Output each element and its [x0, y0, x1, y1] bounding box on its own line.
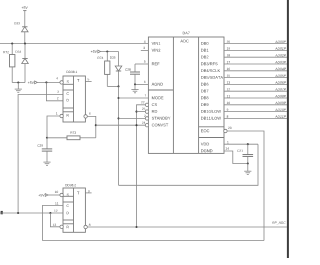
wire EOC route lower	[119, 144, 259, 185]
wire DB9 to bus	[224, 102, 287, 105]
pin 3 label	[57, 91, 59, 93]
pin 13 label	[53, 224, 56, 226]
pin 5 label	[88, 78, 90, 80]
node C21-bottom	[247, 162, 249, 164]
wire DB6 to bus	[224, 81, 287, 84]
wire VDD	[224, 143, 258, 145]
pin 6 label	[89, 112, 90, 114]
ground (AGND/C28)	[131, 84, 138, 92]
wire D to R jog	[50, 213, 60, 227]
wire control vertical	[118, 86, 120, 185]
pin 7 label (MODE)	[145, 94, 146, 96]
wire DB0 to bus	[224, 41, 287, 44]
wire RP_ADC	[87, 226, 287, 228]
node R72-top	[11, 43, 13, 45]
node R73-left junction	[46, 137, 48, 139]
pin 9 stub	[85, 192, 91, 194]
wire DB3 to bus	[224, 61, 287, 64]
terminal (left edge)	[1, 211, 3, 214]
pin 11 label	[55, 202, 58, 204]
resistor R74	[98, 52, 110, 87]
bus ADC data (right edge)	[287, 0, 289, 258]
flip-flop DD38.1 body	[63, 71, 85, 122]
pin 25 label (RD)	[142, 108, 145, 110]
wire left terminal to D	[0, 212, 63, 214]
wire DB10 to bus	[224, 109, 287, 112]
pin 22 circle (CS)	[145, 103, 148, 106]
wire DB1 to bus	[224, 47, 287, 50]
node MODE junction	[117, 97, 119, 99]
wire CS jog	[137, 105, 147, 227]
pin 22 label (CS)	[141, 101, 144, 103]
ground (C29)	[43, 161, 50, 165]
node CONVST junction	[135, 124, 137, 126]
pin 6 label (AGND)	[144, 81, 146, 83]
pin 1 label (VDD)	[227, 141, 228, 143]
pin 13 circle (R)	[60, 225, 63, 228]
power +5V (R74/D35)	[91, 50, 119, 53]
diode D35	[110, 52, 122, 87]
node R-branch	[49, 212, 51, 214]
wire R72/D34 bottom	[12, 82, 25, 84]
wire REF	[135, 63, 148, 65]
wire DB4 to bus	[224, 68, 287, 71]
capacitor C29	[37, 138, 52, 161]
wire RD	[137, 111, 147, 113]
ground (C21)	[244, 164, 251, 175]
pin 12 label	[54, 210, 57, 212]
diode D33	[14, 22, 28, 43]
node D35-bottom	[117, 85, 119, 87]
pin 4 label (VIN1)	[144, 41, 146, 43]
resistor R72	[3, 44, 15, 83]
capacitor C21	[237, 144, 253, 163]
pin 4 circle (S)	[60, 81, 63, 84]
wire pin 6 to R73-right	[87, 116, 96, 137]
pin 23 label (EOC)	[228, 127, 231, 129]
power +5V (top)	[22, 6, 28, 27]
wire C input (pin 3)	[18, 95, 63, 214]
wire DB7 to bus	[224, 88, 287, 91]
wire AGND	[135, 83, 148, 85]
node R74-top	[106, 50, 108, 52]
wire DB8 to bus	[224, 95, 287, 98]
wire DB5 to bus	[224, 75, 287, 78]
power +5V (DD38.1 S)	[28, 81, 60, 84]
pin 9 label	[88, 190, 89, 192]
pin 2 label (STANDBY)	[144, 115, 145, 117]
wire DB11 to bus	[224, 115, 287, 118]
node RD junction	[135, 111, 137, 113]
node C-branch (pin3 net)	[17, 212, 19, 214]
pin 8 circle	[84, 225, 87, 228]
wire pin 11 (C)	[42, 206, 63, 241]
node RP_ADC junction	[135, 226, 137, 228]
node D34-top	[24, 43, 26, 45]
wire pin 1 (R)	[47, 116, 60, 138]
pin 24 label (CONVST)	[142, 122, 145, 124]
pin 5 stub	[85, 80, 91, 82]
pin 1 circle (R)	[60, 114, 63, 117]
node C21-top	[247, 143, 249, 145]
pin 25 circle (RD)	[145, 110, 148, 113]
net label RP_ADC	[272, 222, 285, 225]
wire MODE	[119, 97, 149, 99]
node AGND junction	[134, 83, 136, 85]
power +5V (DD38.2 S)	[38, 194, 60, 197]
wire EOC route	[227, 131, 264, 241]
wire R74/D35 junction	[107, 85, 118, 87]
pin 3 label (VIN2)	[143, 47, 145, 49]
pin 4 label	[56, 77, 58, 79]
pin 5 label (REF)	[144, 60, 146, 62]
diode D34	[16, 44, 29, 83]
resistor R73	[47, 132, 96, 140]
ground (R72/D34)	[15, 83, 22, 93]
node S-wire junction	[45, 81, 47, 83]
pin 6 circle	[84, 115, 87, 118]
pin 14 label (DGND)	[226, 147, 229, 149]
pin 10 circle (S)	[60, 193, 63, 196]
wire CONVST net	[96, 124, 147, 126]
wire STANDBY	[119, 117, 147, 119]
wire analog input bus	[0, 43, 148, 45]
flip-flop DD38.2 body	[63, 184, 85, 232]
node gnd-junction	[17, 81, 19, 83]
pin 8 label	[89, 224, 91, 226]
pin 10 label	[55, 191, 58, 193]
wire bottom (EOC to DD38.2 C)	[42, 240, 264, 242]
pin 1 label	[56, 112, 57, 114]
wire DGND	[224, 151, 248, 164]
node STANDBY junction	[117, 117, 119, 119]
pin 2 circle (STANDBY)	[145, 117, 148, 120]
wire +5V to D input	[46, 82, 63, 100]
wire DB2 to bus	[224, 54, 287, 57]
wire VIN2 stub	[141, 49, 149, 51]
pin 23 circle (EOC)	[224, 129, 227, 132]
op-amp U1 ADC DA7	[148, 32, 224, 154]
pin 2 label	[57, 97, 58, 99]
node CONVST branch	[95, 124, 97, 126]
pin 24 circle (CONVST)	[145, 124, 148, 127]
capacitor C28	[125, 64, 140, 84]
